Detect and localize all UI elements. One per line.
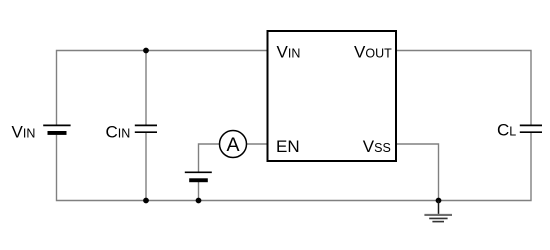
svg-text:A: A [226,134,239,156]
svg-text:CL: CL [497,121,516,140]
svg-text:CIN: CIN [106,123,131,142]
svg-text:EN: EN [276,137,300,156]
svg-text:VIN: VIN [12,123,36,142]
